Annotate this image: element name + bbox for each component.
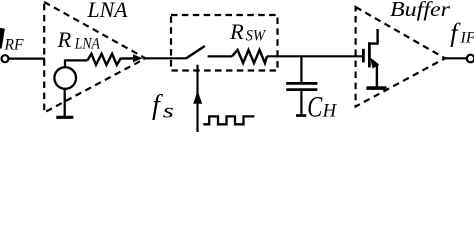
transistor source/ground bar bbox=[366, 86, 386, 90]
wire resistor to gate bbox=[267, 55, 363, 57]
wire LNA apex to switch bbox=[143, 57, 187, 59]
capacitor ground bar bbox=[296, 114, 306, 117]
clock waveform bbox=[203, 116, 254, 124]
switch arm (open) bbox=[187, 46, 205, 58]
capacitor top plate bbox=[286, 82, 317, 85]
Buffer dashed triangle bbox=[356, 7, 445, 107]
svg-text:RF: RF bbox=[4, 37, 24, 54]
output wire bbox=[445, 57, 467, 59]
resistor R_SW zigzag bbox=[232, 50, 267, 63]
svg-text:LNA: LNA bbox=[87, 0, 128, 22]
LNA dashed triangle bbox=[44, 2, 145, 113]
resistor R_LNA zigzag bbox=[88, 54, 135, 65]
transistor drain bbox=[369, 29, 377, 44]
capacitor C_H stem top bbox=[300, 56, 302, 82]
svg-text:SW: SW bbox=[246, 28, 267, 45]
capacitor stem bottom bbox=[300, 91, 302, 114]
svg-text:f: f bbox=[152, 90, 163, 121]
svg-text:Buffer: Buffer bbox=[390, 0, 451, 21]
current source ground stem bbox=[64, 89, 66, 118]
svg-text:H: H bbox=[322, 102, 338, 122]
wire input to LNA edge bbox=[9, 57, 46, 59]
clock arrowhead bbox=[193, 91, 202, 104]
capacitor bottom plate bbox=[286, 88, 317, 91]
wire source top to resistor bbox=[65, 60, 88, 67]
transistor source arrow bbox=[370, 57, 379, 68]
svg-text:IF: IF bbox=[460, 30, 474, 47]
input terminal f_RF bbox=[2, 55, 9, 62]
svg-text:s: s bbox=[163, 100, 174, 123]
svg-text:LNA: LNA bbox=[74, 36, 100, 53]
switch dashed box bbox=[171, 15, 278, 71]
label f_RF bbox=[0, 28, 5, 49]
svg-text:R: R bbox=[229, 19, 244, 44]
svg-text:C: C bbox=[307, 89, 322, 123]
output terminal circle bbox=[467, 55, 474, 63]
clock control line bbox=[196, 65, 198, 132]
transistor M1 gate bar bbox=[362, 49, 365, 63]
arrowhead at LNA apex bbox=[133, 54, 143, 62]
transistor channel bar bbox=[368, 42, 371, 67]
svg-text:R: R bbox=[57, 27, 72, 52]
transistor source line bbox=[376, 64, 378, 87]
current source ground bar bbox=[56, 116, 73, 119]
wire switch to resistor bbox=[208, 55, 232, 57]
current source I (circle) bbox=[54, 67, 76, 89]
